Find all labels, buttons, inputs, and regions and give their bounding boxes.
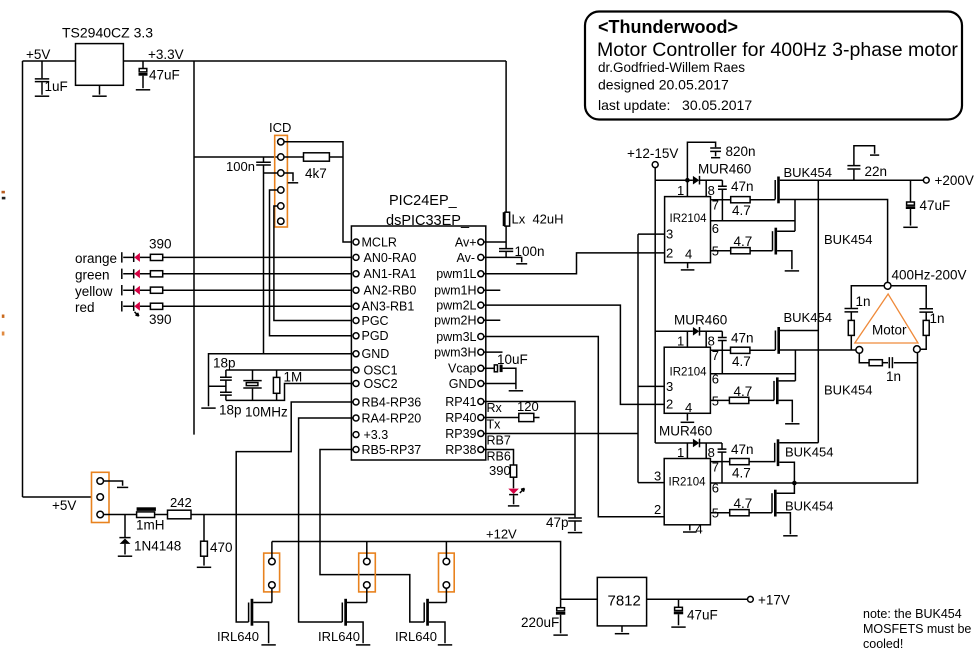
ground at 47uF (200V) [903,226,917,228]
resistor 4.7 (HO3) [730,459,751,481]
svg-text:note: the BUK454: note: the BUK454 [863,607,962,621]
svg-text:+3.3V: +3.3V [148,47,184,62]
svg-text:BUK454: BUK454 [784,310,832,325]
connector ICD [269,120,291,227]
wire +200V rail (Q1 drain) [780,179,927,181]
ic U3 IR2104 #1 [665,197,711,263]
svg-text:4: 4 [685,247,692,262]
ground at Q5 [356,644,370,646]
ground at IR2104#1 pin4 [681,263,695,270]
capacitor 22n [847,146,887,180]
wire 4k7 to MCLR net [329,156,343,158]
svg-text:BUK454: BUK454 [824,383,872,398]
svg-text:1N4148: 1N4148 [134,539,181,554]
transistor Q4 IRL640 [217,599,272,644]
svg-text:390: 390 [489,463,511,478]
ICD pin 3 [278,170,284,176]
node N2 motor left [856,347,863,354]
svg-text:470: 470 [210,540,233,555]
svg-text:8: 8 [708,334,715,349]
wire RP41 Rx to serial net [484,402,575,515]
ic U5 IR2104 #3 [664,459,710,525]
wire pin6 VS2 [710,373,795,375]
wire VCC rail down [654,168,656,443]
junction dot VS3 [792,481,797,486]
wire RP40 to 120 [484,417,519,419]
svg-text:AN2-RB0: AN2-RB0 [364,284,417,298]
capacitor 47uF (17V) [674,599,718,625]
transistor Q6 IRL640 [395,599,446,644]
ICD pin 1 [278,139,284,145]
wire IR2104#2 pin8 riser [705,331,707,347]
wire orange led to AN0 [163,256,353,258]
wire OSC1 rail [226,369,353,371]
resistor 4.7 (HO1) [731,197,751,218]
transistor Q3 BUK454 (phase2 high) [775,310,832,354]
wire OSC2 rail [226,384,353,401]
connector J2 [264,553,280,592]
svg-text:10MHz: 10MHz [245,405,288,420]
resistor 242 [168,495,192,519]
ground at led D5 [508,505,519,507]
ground at 47p [568,532,582,534]
ic left pin labels [362,235,422,457]
svg-text:<Thunderwood>: <Thunderwood> [598,17,738,37]
capacitor 47n (bootstrap 3) [718,442,754,483]
capacitor 100n (Av) [499,242,545,259]
svg-text:RB4-RP36: RB4-RP36 [362,395,422,409]
ground at Av- [516,263,527,265]
wire 3.3V rail down to Lx [505,61,507,212]
edge artifact marks [2,191,5,194]
ICD pin 6 [278,218,284,224]
connector J1 +5V input [92,472,110,522]
svg-text:4k7: 4k7 [305,166,327,181]
wire 4.7 to Q3 gate [750,349,776,351]
svg-text:AN0-RA0: AN0-RA0 [364,251,417,265]
node +200V terminal [923,173,974,188]
wire Q1 source to Q2 drain [794,200,796,232]
ic right pin circles [478,239,484,453]
junction dot VCC/820n/pin1 [685,178,690,183]
svg-text:GND: GND [449,377,477,391]
wire VCC to diode D6 [655,179,693,181]
svg-text:1mH: 1mH [136,518,165,533]
diode 1N4148 [119,515,181,555]
ICD pin 5 [278,203,284,209]
wire pwm2L to IR2104#2 pin2 [484,305,664,404]
wire serial rail [104,514,576,516]
svg-text:47n: 47n [731,442,754,457]
svg-text:orange: orange [75,251,117,266]
svg-text:Tx: Tx [487,418,502,432]
svg-text:Av-: Av- [456,251,475,265]
wire pin5 #3 [710,512,729,514]
capacitor 47n (bootstrap 2) [718,331,754,374]
wire ICD VDD rail [194,156,277,158]
svg-text:1n: 1n [886,369,901,384]
svg-text:pwm1L: pwm1L [436,267,476,281]
node 400Hz-200V motor top [884,268,966,290]
wire 7812 output to +17V [647,598,748,600]
resistor 390 (RB6 led) [489,463,517,478]
svg-text:MUR460: MUR460 [674,313,727,328]
capacitor 1n (left snubber) [845,294,871,320]
wire pin5 #1 [711,250,731,252]
led arrow indicator [135,312,139,316]
wire IR2104#1 pin1 riser [686,180,688,196]
svg-text:pwm2L: pwm2L [436,299,476,313]
ground at ICD pin3 [288,182,298,184]
wire 4.7 to Q2 gate [750,250,772,252]
wire phase1 node to motor [780,200,888,283]
svg-text:OSC2: OSC2 [364,377,398,391]
svg-text:pwm3L: pwm3L [436,330,476,344]
snubber right: wire from motor top [891,286,926,308]
wire IR2104#3 pin8 riser [705,443,707,459]
capacitor 18p upper [213,356,236,392]
svg-text:RB5-RP37: RB5-RP37 [362,443,422,457]
svg-text:IRL640: IRL640 [395,629,437,644]
wire 390 to led [513,477,515,488]
wire IR2104#1 pin8 riser [705,180,707,196]
ground at IR2104#2 pin4 [681,413,695,422]
svg-text:cooled!: cooled! [863,637,903,651]
title block frame [585,12,962,120]
svg-text:BUK454: BUK454 [784,165,832,180]
led D4 red row [75,300,150,315]
transistor Q5 IRL640 [318,599,367,644]
svg-text:47n: 47n [731,331,754,346]
ic U4 IR2104 #2 [664,347,710,413]
svg-text:1: 1 [677,183,684,198]
resistor 4.7 (HO2) [731,347,751,369]
svg-text:7812: 7812 [608,593,641,610]
wire red led to AN3 [163,305,353,307]
capacitor 1uF [35,61,68,95]
wire VCC to diode D7 [655,330,693,332]
wire J4 pin1 riser [445,542,447,559]
svg-text:pwm2H: pwm2H [434,314,476,328]
ground at J1 pin1 [117,486,128,488]
wire +5V left rail vertical [22,61,24,497]
svg-text:MCLR: MCLR [362,235,397,249]
transistor Q4b BUK454 (phase2 low) [774,377,872,422]
wire 4.7 to Q1 gate [750,199,775,201]
svg-text:BUK454: BUK454 [785,445,833,460]
svg-text:RB7: RB7 [487,434,511,448]
motor M (triangle) [855,294,918,343]
wire RB5 to IRL640#3 gate [320,450,424,623]
wire yellow led to AN2 [163,289,353,291]
wire IR2104#2 pin1 riser [686,331,688,347]
capacitor 10uF (Vcap) [484,352,528,384]
svg-text:4.7: 4.7 [734,384,753,399]
wire 4.7 to Q6b gate [749,512,772,514]
svg-text:2: 2 [666,397,673,412]
ground at 22n [870,154,879,156]
wire SD net vertical (RB7) [637,234,639,483]
wire ICD pin3 to 100n net [264,172,278,174]
ground at 7812 [615,626,629,634]
wire ICD pin5 to PGC [274,206,353,321]
svg-text:RB6: RB6 [487,450,511,464]
wire ICD pin2 to 4k7 [284,156,304,158]
svg-text:RP41: RP41 [445,395,476,409]
svg-text:last update: 30.05.2017: last update: 30.05.2017 [598,97,752,113]
regulator U2 7812 [597,577,646,626]
diode D8 MUR460 [659,424,712,448]
capacitor 47uF (200V) [906,180,950,225]
svg-text:dsPIC33EP_: dsPIC33EP_ [386,213,470,229]
ground at Q2 [785,270,799,272]
svg-text:Motor: Motor [872,323,907,338]
wire pin7 #3 [710,461,729,463]
svg-text:PGC: PGC [362,314,389,328]
snubber bottom: wire from N2 [859,353,869,362]
wire pwm3H stub [484,351,503,353]
wire 3.3V vertical rail x194 [193,61,195,435]
wire J2 pin2 to Q4 drain [271,588,273,602]
pin labels IR2104#2 [666,334,719,415]
svg-text:IR2104: IR2104 [669,477,707,489]
svg-text:Lx 42uH: Lx 42uH [512,212,564,227]
svg-text:MOSFETS must be: MOSFETS must be [863,622,971,636]
wire J3 pin2 to Q5 drain [366,588,368,602]
svg-text:1: 1 [677,445,684,460]
svg-text:IRL640: IRL640 [217,629,259,644]
wire J3 pin1 riser [366,542,368,559]
svg-text:MUR460: MUR460 [698,162,751,177]
svg-text:4: 4 [696,522,703,537]
svg-text:Av+: Av+ [455,235,477,249]
node N3 motor right [914,346,921,353]
node +12-15V terminal [627,146,678,168]
wire pwm3L to IR2104#3 pin2 [484,337,664,517]
svg-text:220uF: 220uF [521,615,559,630]
svg-text:OSC1: OSC1 [364,363,398,377]
svg-text:47uF: 47uF [687,608,718,623]
diode D7 MUR460 [674,313,727,336]
resistor 390 (yellow led) [150,287,162,293]
wire pin3 #2 [638,385,664,387]
svg-text:+200V: +200V [935,173,974,188]
inductor 1mH [136,507,165,532]
ground for GND rail [201,407,215,409]
svg-text:4.7: 4.7 [732,203,751,218]
svg-text:8: 8 [708,183,715,198]
svg-text:RP38: RP38 [445,443,476,457]
wire pwm1H stub [484,289,501,291]
svg-text:+5V: +5V [52,498,76,513]
resistor (right snubber) [923,320,929,335]
wire Lx to Av+ [505,226,507,242]
wire J4 pin2 to Q6 drain [445,588,447,602]
led D2 green row [75,267,150,282]
wire GND rail from IC [209,354,354,407]
svg-text:green: green [75,267,110,282]
svg-text:10uF: 10uF [497,352,528,367]
resistor 4.7 (LO2) [729,384,752,404]
connector J4 [439,553,455,592]
wire D7 cathode to 47n [700,330,723,332]
svg-text:dr.Godfried-Willem Raes: dr.Godfried-Willem Raes [598,60,745,75]
svg-text:BUK454: BUK454 [824,232,872,247]
wire pin6 VS3 to motor right node [710,352,917,483]
svg-text:3: 3 [666,379,673,394]
svg-text:8: 8 [708,445,715,460]
wire left snubber to phase2 line [850,335,852,350]
svg-text:4.7: 4.7 [732,466,751,481]
wire +5V rail to regulator [23,60,76,62]
ground at 1N4148 [118,555,132,557]
wire ICD pin4 to PGD [270,190,354,336]
ground at 470 [197,566,211,568]
wire green led to AN1 [163,273,353,275]
ground for 1uF [35,95,49,97]
capacitor 1n (right snubber) [919,309,944,326]
ground at 820n [711,157,720,159]
wire pin5 #2 [710,399,729,401]
ground at Q6b [783,535,797,537]
resistor 120 [517,399,539,422]
wire 120 stub [534,417,540,419]
svg-text:RP40: RP40 [445,411,476,425]
wire phase2 node to motor left [780,349,856,351]
ground at Q4b [785,423,799,425]
svg-text:4.7: 4.7 [734,234,753,249]
diode D6 MUR460 [693,162,751,185]
led D3 yellow row [75,284,150,299]
wire +3.3V rail [123,60,506,62]
transistor Q5b BUK454 (phase3 high) [775,439,834,483]
node +17V terminal [748,593,790,608]
transistor Q2 BUK454 (phase1 low) [773,228,873,270]
snubber left: wire from motor top [851,286,884,308]
svg-text:Motor Controller for 400Hz 3-p: Motor Controller for 400Hz 3-phase motor [597,39,958,61]
svg-text:PGD: PGD [362,329,389,343]
wire ICD pin3 to ground [284,173,293,181]
wire pwm1L to IR2104#1 pin2 [484,253,665,274]
wire right snubber to node N3 [920,335,926,349]
wire 18p midpoint to ground [209,385,226,387]
svg-text:PIC24EP_: PIC24EP_ [389,193,458,209]
capacitor 18p lower [219,392,242,417]
capacitor 820n [687,142,755,180]
ground at IR2104#3 pin4 [683,525,697,532]
svg-text:100n: 100n [226,159,255,174]
svg-text:1M: 1M [284,370,303,385]
wire RP38 RB6 [484,450,514,466]
led D1 orange row [75,251,150,266]
capacitor 100n (ICD decoupling) [226,157,271,174]
resistor 4.7 (LO1) [731,234,753,254]
svg-text:4: 4 [685,400,692,415]
transistor Q6b BUK454 (phase3 low) [772,483,833,534]
svg-text:+12V: +12V [486,527,517,542]
wire 4.7 to Q5b gate [749,461,775,463]
svg-text:MUR460: MUR460 [659,424,712,439]
pin labels IR2104#1 [666,183,719,262]
svg-text:pwm3H: pwm3H [434,346,476,360]
pin labels IR2104#3 [654,445,719,537]
crystal 10MHz [243,370,288,420]
svg-text:RP39: RP39 [445,427,476,441]
wire Av+ to Lx net [484,241,506,243]
resistor 1M [273,370,302,401]
svg-text:3: 3 [654,469,661,484]
svg-text:AN3-RB1: AN3-RB1 [362,300,415,314]
connector J3 [359,553,376,592]
capacitor 47uF (3.3V) [139,61,180,88]
svg-text:1n: 1n [856,294,871,309]
svg-text:4.7: 4.7 [732,354,751,369]
svg-text:47uF: 47uF [149,68,180,83]
svg-text:390: 390 [149,237,172,252]
ground at Vcap/GND [509,390,523,392]
svg-text:1n: 1n [930,311,945,326]
resistor 4.7 (LO3) [730,496,753,516]
wire pin3 #3 [638,482,664,484]
wire J2 pin1 riser [271,542,273,559]
svg-text:+17V: +17V [758,593,790,608]
svg-text:400Hz-200V: 400Hz-200V [892,268,967,283]
wire RB4 to IRL640#1 gate [236,402,353,622]
svg-text:AN1-RA1: AN1-RA1 [364,267,417,281]
wire pin3 #1 [638,233,665,235]
transistor Q1 BUK454 (phase1 high) [775,165,832,203]
ground at 220uF [553,634,567,636]
svg-text:IRL640: IRL640 [318,629,360,644]
svg-text:ICD: ICD [269,120,291,135]
resistor 390 (orange led) [150,254,162,260]
wire RP39 RB7 to SD net [484,433,638,435]
resistor (left snubber) [848,320,854,335]
wire IR2104#3 pin1 riser [686,443,688,459]
svg-text:820n: 820n [726,144,756,159]
wire pin7 #2 [710,349,730,351]
svg-text:pwm1H: pwm1H [434,284,476,298]
wire +12V rail [272,542,561,600]
wire VCC to diode D8 [655,442,693,444]
wire Q3 source to Q4b drain [794,350,796,381]
wire 4.7 to Q4b gate [749,399,774,401]
svg-text:390: 390 [149,312,172,327]
regulator U TS2940CZ 3.3 [62,25,153,86]
svg-text:Rx: Rx [487,401,503,415]
svg-text:1: 1 [677,334,684,349]
svg-text:+12-15V: +12-15V [627,146,678,161]
svg-text:GND: GND [362,347,390,361]
svg-text:4.7: 4.7 [734,496,753,511]
resistor 4k7 [304,153,330,181]
wire GND pin to ground [484,384,516,390]
svg-text:red: red [75,300,95,315]
capacitor 220uF [521,599,565,633]
wire pin6 VS1 [711,220,796,222]
wire ICD pin1 to MCLR [284,142,353,242]
ic U1 PIC24EP/dsPIC33EP box [351,193,485,460]
wire J1 pin1 to ground [104,481,123,486]
capacitor 47n (bootstrap 1) [718,179,754,221]
ICD pin 4 [278,187,284,193]
svg-text:6: 6 [712,221,719,236]
svg-text:Vcap: Vcap [448,362,477,376]
ic right pin labels [434,235,476,457]
ground at Q4 [261,644,275,646]
svg-text:2: 2 [654,502,661,517]
svg-text:TS2940CZ 3.3: TS2940CZ 3.3 [62,25,153,41]
